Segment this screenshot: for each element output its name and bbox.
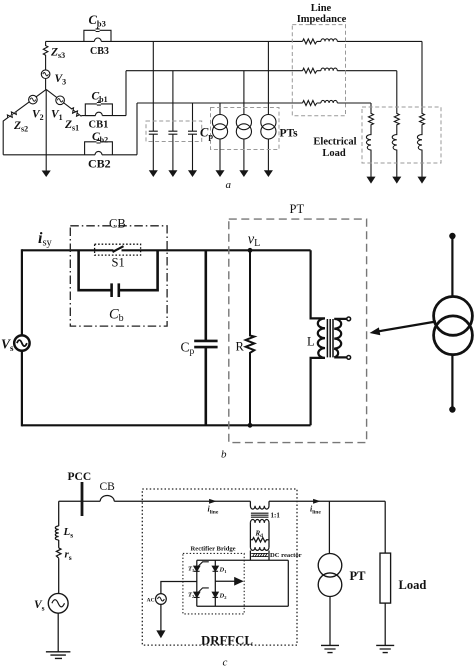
wire bus phase1 middle xyxy=(126,71,397,116)
terminal top xyxy=(347,317,351,321)
inductor Ls xyxy=(55,526,58,540)
wire source branch fig-c xyxy=(57,501,60,652)
svg-text:1:1: 1:1 xyxy=(271,512,281,520)
ground arrow Cp1 xyxy=(150,171,157,176)
inductor line row1 xyxy=(321,39,337,42)
earth ground Load xyxy=(376,645,394,652)
inductor L primary fig-b xyxy=(311,250,325,425)
PT dashed box fig-b xyxy=(229,219,367,443)
svg-text:V2: V2 xyxy=(32,109,44,123)
source AC xyxy=(156,594,167,605)
svg-text:rs: rs xyxy=(65,549,72,563)
thyristor T2 xyxy=(194,592,200,597)
svg-text:Cp: Cp xyxy=(200,126,213,142)
transformer core fig-c xyxy=(251,513,269,517)
wire star left branch xyxy=(3,89,46,154)
svg-text:D1: D1 xyxy=(219,567,228,575)
junction dot bottom xyxy=(248,423,253,428)
inductor line row3 xyxy=(321,100,337,103)
svg-text:V1: V1 xyxy=(51,109,63,123)
source V1 xyxy=(56,96,65,105)
output arrow bridge xyxy=(215,580,235,582)
ground arrow load1 xyxy=(368,177,375,182)
source V3 xyxy=(41,70,50,79)
wire Load branch xyxy=(384,501,386,645)
ground arrow load2 xyxy=(393,177,400,182)
wire star center down xyxy=(45,89,47,171)
svg-text:PTs: PTs xyxy=(280,128,299,140)
svg-text:AC: AC xyxy=(147,598,155,604)
svg-text:Zs2: Zs2 xyxy=(13,120,28,134)
current arrow i_line outside xyxy=(314,499,320,503)
wire neutral bottom xyxy=(3,154,137,156)
wire reactor to rails xyxy=(250,551,269,561)
svg-text:Vs: Vs xyxy=(34,599,45,613)
ground arrow Cp2 xyxy=(169,171,176,176)
svg-text:Cb: Cb xyxy=(109,307,124,325)
resistor R fig-b xyxy=(246,250,255,425)
svg-text:Electrical: Electrical xyxy=(313,137,356,148)
PT symbol dot bottom xyxy=(449,406,455,412)
resistor line row3 xyxy=(303,101,317,106)
svg-text:vL: vL xyxy=(248,232,261,250)
svg-text:Cb2: Cb2 xyxy=(92,131,108,145)
svg-text:Rectifier Bridge: Rectifier Bridge xyxy=(191,546,236,553)
ground arrow PT1 xyxy=(217,171,224,176)
breaker CB3 xyxy=(84,30,111,41)
inductor line row2 xyxy=(321,68,337,71)
svg-text:c: c xyxy=(223,657,228,667)
svg-text:Load: Load xyxy=(322,148,346,159)
PT circles fig-c xyxy=(318,554,342,578)
svg-text:Load: Load xyxy=(399,578,427,592)
DC reactor coil xyxy=(250,547,269,550)
PT symbol circles xyxy=(434,297,473,336)
capacitor Cp phase2 branch xyxy=(188,103,197,171)
line impedance dashed box xyxy=(292,25,345,116)
svg-text:S1: S1 xyxy=(112,256,125,270)
wire V3 to star point xyxy=(45,79,47,90)
resistor line row1 xyxy=(303,39,317,44)
svg-text:CB: CB xyxy=(109,217,126,231)
breaker CB2 xyxy=(85,142,113,155)
PTs dashed box xyxy=(211,108,280,150)
svg-text:PT: PT xyxy=(290,202,305,216)
breaker CB fig-c arc xyxy=(100,496,114,502)
svg-text:Cb3: Cb3 xyxy=(89,13,106,29)
svg-text:Zs3: Zs3 xyxy=(50,47,65,61)
wire bus phase3 top xyxy=(46,40,422,42)
PT3 xyxy=(267,41,269,171)
wire fig-c main line xyxy=(59,500,386,502)
svg-text:Ls: Ls xyxy=(63,526,74,540)
wire bridge bottom rail xyxy=(197,605,288,607)
wire CB1 to bus1 xyxy=(85,115,126,117)
ground arrow PT2 xyxy=(240,171,247,176)
PT1 xyxy=(219,103,221,171)
wire fig-b left xyxy=(21,249,23,426)
svg-text:D2: D2 xyxy=(219,593,228,601)
resistor Zs1 xyxy=(70,107,81,117)
transformer primary fig-c xyxy=(250,501,269,509)
svg-text:L: L xyxy=(307,335,315,349)
ground arrow neutral xyxy=(43,171,50,176)
svg-text:iline: iline xyxy=(208,505,219,516)
wire bridge right column xyxy=(214,560,216,606)
source Vs fig-b xyxy=(14,335,29,350)
earth ground PT xyxy=(321,645,339,652)
current arrow i_line inside xyxy=(210,499,216,503)
ground arrow AC xyxy=(157,631,164,637)
Cp dashed box xyxy=(146,121,202,142)
wire bridge left column xyxy=(196,560,198,606)
transformer secondary fig-c xyxy=(250,520,269,523)
source Vs fig-c xyxy=(48,593,68,613)
resistor line row2 xyxy=(303,68,317,73)
terminal bottom xyxy=(347,356,351,360)
CB dash-dot box xyxy=(70,226,167,326)
svg-text:V3: V3 xyxy=(55,73,67,87)
wire bridge top rail xyxy=(197,559,288,561)
capacitor Cb1 xyxy=(97,100,101,105)
arrow PT to transformer xyxy=(379,322,437,332)
wire fig-b bottom xyxy=(22,424,311,426)
svg-text:Line: Line xyxy=(311,3,332,14)
ground arrow load3 xyxy=(419,177,426,182)
DC reactor core hatch xyxy=(251,553,268,556)
svg-text:a: a xyxy=(226,179,232,191)
svg-text:DRFFCL: DRFFCL xyxy=(201,634,253,648)
source V2 xyxy=(29,95,38,104)
capacitor Cp fig-b xyxy=(194,250,217,425)
capacitor Cb3 xyxy=(96,27,100,32)
svg-text:DC reactor: DC reactor xyxy=(270,552,302,559)
wire star right branch xyxy=(46,89,95,116)
svg-text:Cb1: Cb1 xyxy=(92,91,108,105)
wire AC down xyxy=(160,604,162,631)
resistor rs xyxy=(56,548,61,558)
wire secondary loop xyxy=(250,523,269,547)
S1 dotted box xyxy=(95,244,141,255)
svg-text:CB2: CB2 xyxy=(88,157,111,171)
load rectangle xyxy=(380,553,391,603)
PT symbol leads xyxy=(451,235,453,410)
rectifier bridge dotted box xyxy=(183,553,244,614)
electrical load dashed box xyxy=(362,107,441,163)
resistor Zs3 xyxy=(43,41,48,70)
svg-text:CB3: CB3 xyxy=(90,46,109,57)
svg-text:CB1: CB1 xyxy=(89,120,109,131)
capacitor Cp phase1 branch xyxy=(168,71,177,171)
wire AC to bridge xyxy=(161,582,197,594)
capacitor Cp phase3 branch xyxy=(149,41,158,171)
ground arrow PT3 xyxy=(265,171,272,176)
earth ground Vs xyxy=(46,652,71,659)
diode D2 xyxy=(213,592,219,597)
svg-text:Cp: Cp xyxy=(181,340,195,358)
svg-text:CB: CB xyxy=(100,481,116,493)
capacitor Cb2 xyxy=(97,138,101,143)
thyristor T1 xyxy=(194,566,200,571)
load branch phase2 xyxy=(366,103,373,177)
breaker CB1 xyxy=(85,104,112,116)
svg-text:Zs1: Zs1 xyxy=(64,119,79,133)
svg-text:R: R xyxy=(236,340,245,354)
svg-text:PCC: PCC xyxy=(68,471,92,483)
svg-text:iline: iline xyxy=(310,505,321,516)
bus bar PCC xyxy=(81,482,84,516)
wire fig-b top xyxy=(22,249,311,251)
ground arrow Cp3 xyxy=(189,171,196,176)
wire dc loop right xyxy=(287,560,289,606)
svg-text:isy: isy xyxy=(38,230,53,249)
wire bus phase2 bottom xyxy=(137,103,371,155)
capacitor Cb branch xyxy=(77,250,159,297)
load branch phase1 xyxy=(392,71,399,178)
svg-text:b: b xyxy=(221,449,227,461)
PT2 xyxy=(243,71,245,171)
transformer secondary fig-b xyxy=(334,319,346,358)
svg-text:Vs: Vs xyxy=(1,337,14,354)
wire PT branch fig-c xyxy=(328,501,331,645)
DRFFCL dotted box xyxy=(142,489,297,645)
junction dot vL top xyxy=(248,248,253,253)
load branch phase3 xyxy=(417,41,424,177)
switch S1 blade xyxy=(113,246,124,252)
diode D1 xyxy=(213,566,219,571)
svg-text:Impedance: Impedance xyxy=(297,14,347,25)
svg-text:PT: PT xyxy=(350,569,367,583)
resistor Rd xyxy=(250,538,269,542)
transformer core fig-b xyxy=(327,319,333,357)
resistor Zs2 xyxy=(6,110,17,120)
PT symbol dot top xyxy=(449,233,455,239)
